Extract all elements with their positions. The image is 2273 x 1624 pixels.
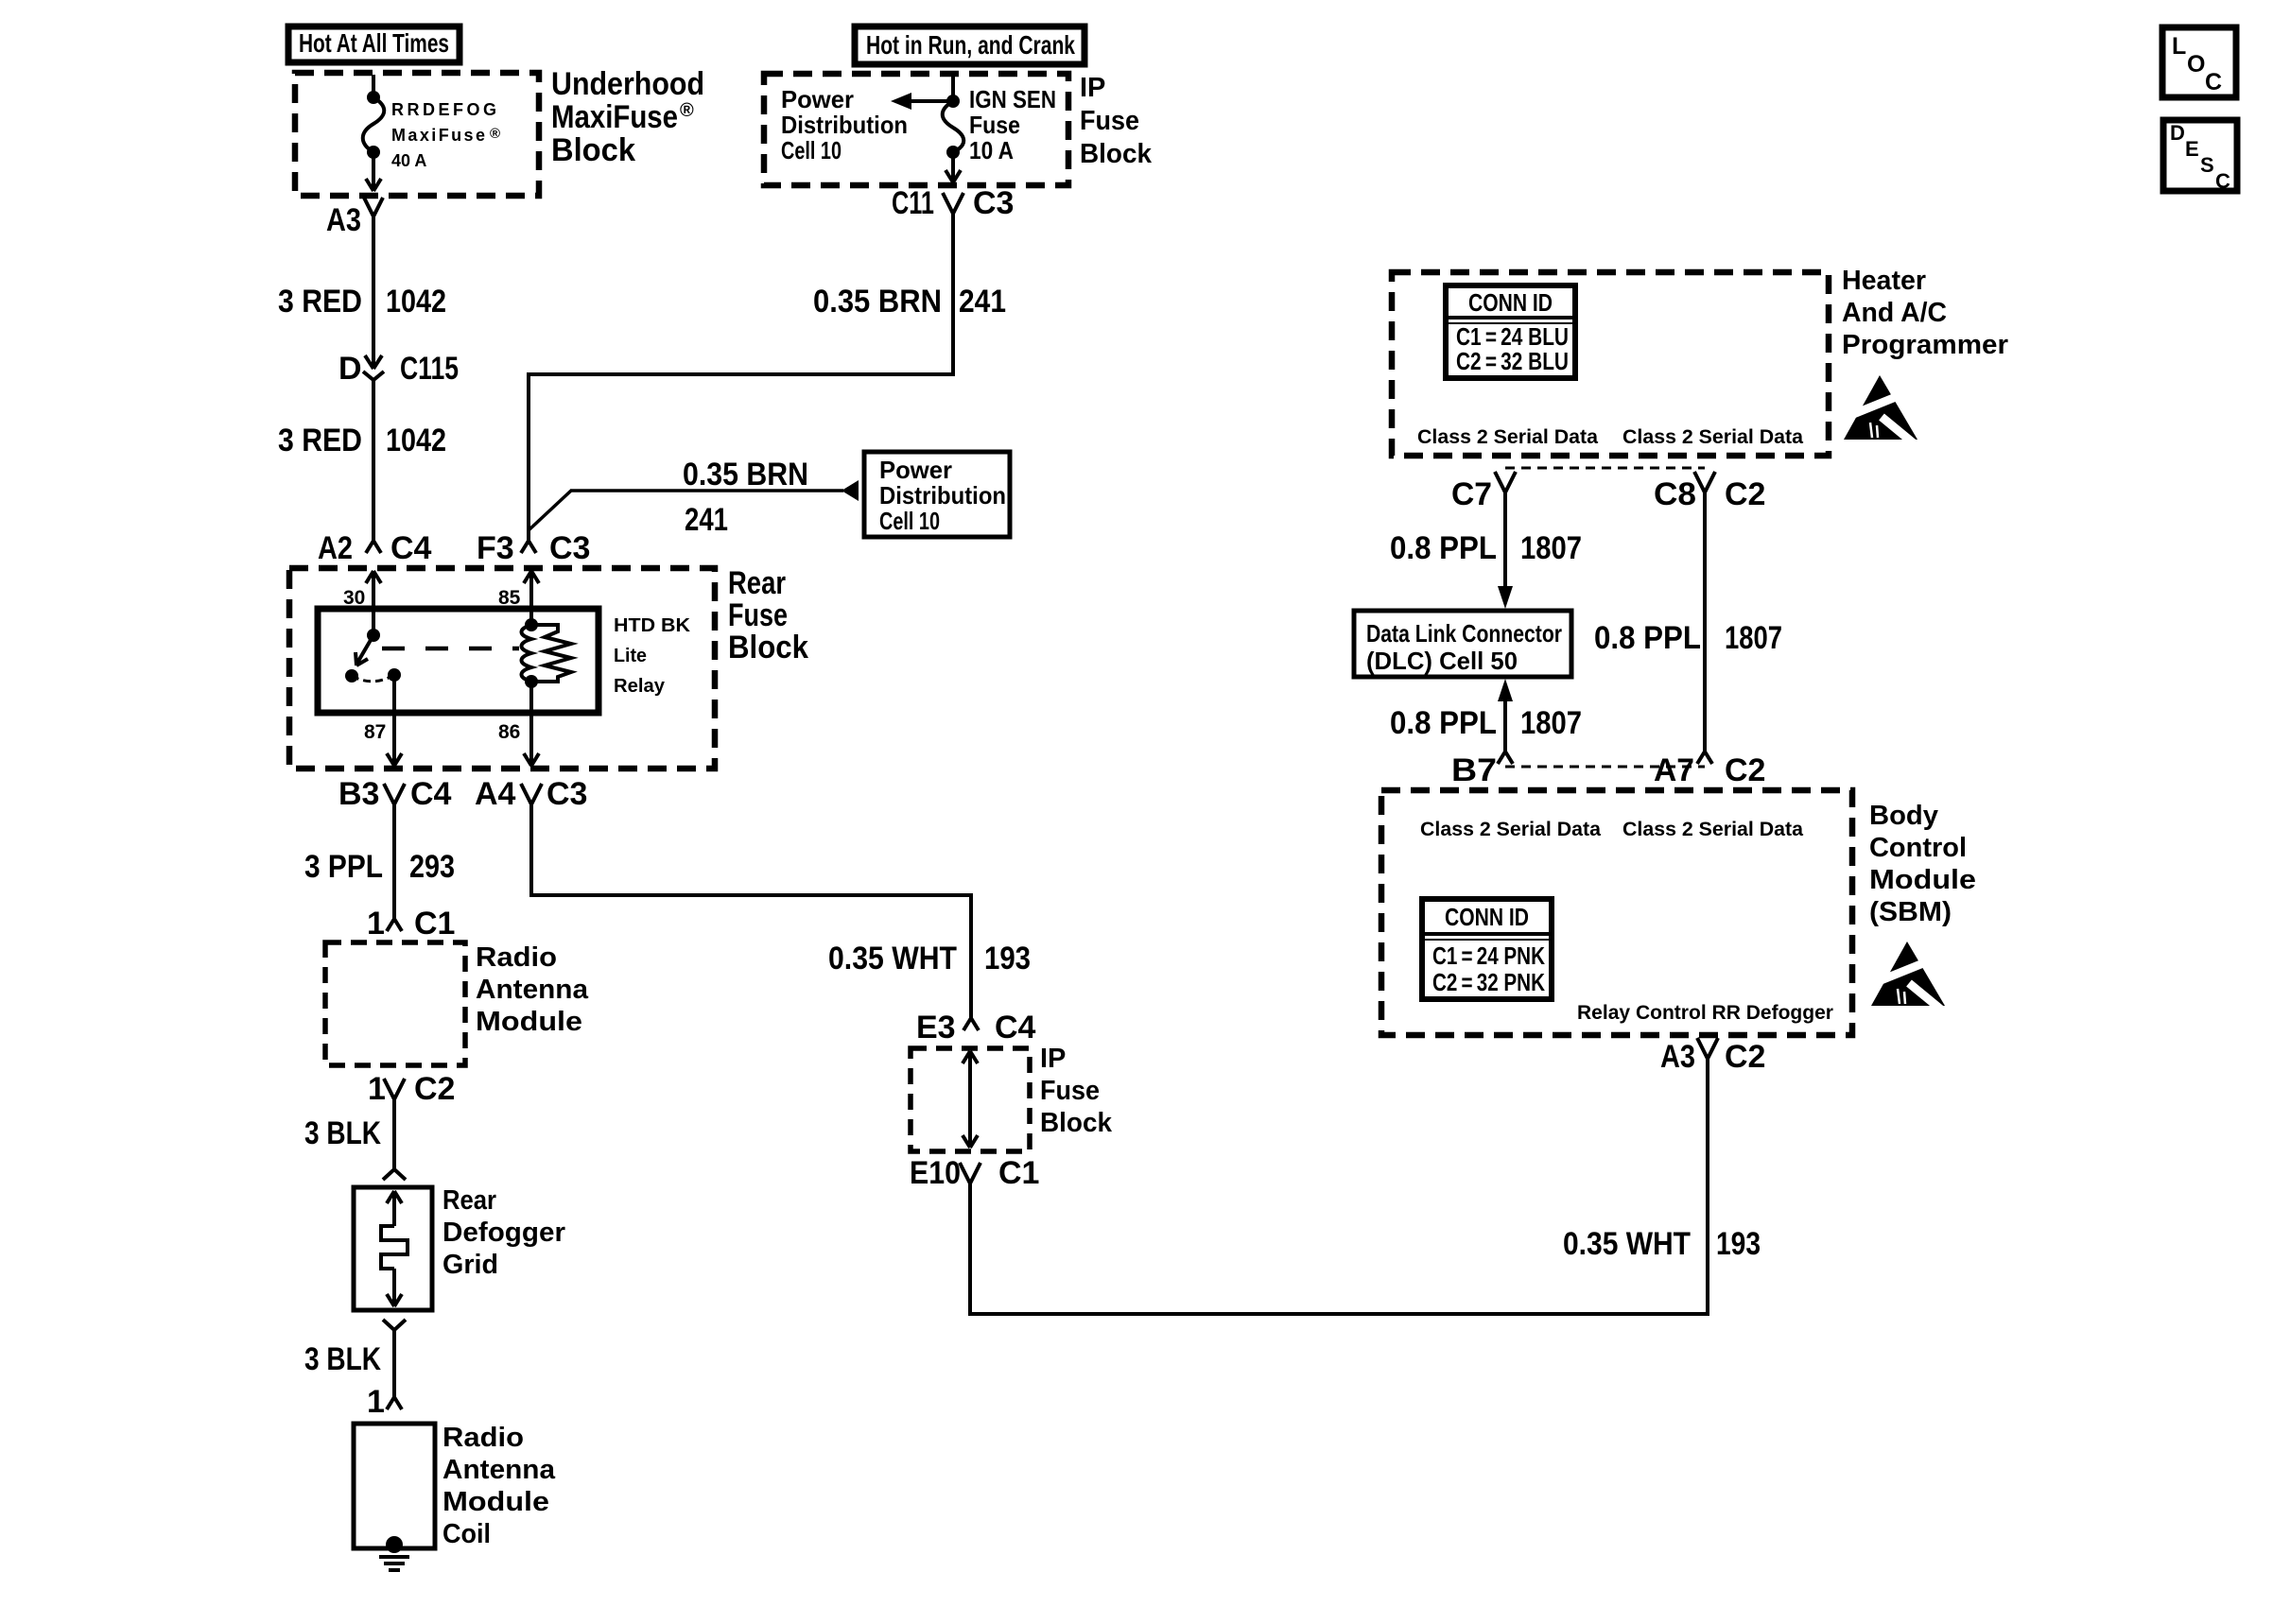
wire 3 BLK (grid to coil) bbox=[392, 1330, 396, 1397]
svg-text:C: C bbox=[2215, 169, 2230, 193]
svg-text:Power: Power bbox=[781, 85, 854, 113]
grid element wire with arrows bbox=[387, 1191, 402, 1306]
svg-text:B3: B3 bbox=[338, 776, 379, 812]
svg-text:Class 2 Serial Data: Class 2 Serial Data bbox=[1622, 426, 1803, 448]
svg-text:0.35 WHT: 0.35 WHT bbox=[1563, 1226, 1691, 1262]
svg-text:(SBM): (SBM) bbox=[1869, 897, 1952, 927]
connector A3 (Y symbol) bbox=[326, 198, 383, 238]
label Body Control Module (SBM) bbox=[1869, 801, 1976, 927]
wire label 0.8 PPL 1807 (C7) bbox=[1390, 530, 1582, 566]
svg-text:A2: A2 bbox=[318, 530, 353, 566]
svg-text:C2 = 32 BLU: C2 = 32 BLU bbox=[1456, 347, 1569, 375]
Power Distribution Cell 10 (solid box) bbox=[864, 452, 1010, 537]
svg-text:1: 1 bbox=[367, 906, 385, 942]
svg-text:87: 87 bbox=[364, 721, 386, 743]
connector pin 1 at coil bbox=[367, 1384, 402, 1420]
svg-text:C4: C4 bbox=[410, 776, 452, 812]
CONN ID table (BCM) bbox=[1422, 899, 1552, 999]
Underhood MaxiFuse Block (dashed box) bbox=[295, 73, 539, 196]
wire 3 RED 1042 (C115 to A2) bbox=[372, 380, 375, 541]
node: fuse bottom dot bbox=[367, 146, 380, 159]
wire 0.35 WHT 193 (A4/C3 down to E3) bbox=[531, 804, 971, 1018]
svg-text:Distribution: Distribution bbox=[781, 111, 908, 139]
wire label 0.35 BRN 241 bbox=[813, 284, 1006, 320]
wire 3 PPL 293 (B3 to radio antenna module) bbox=[392, 804, 396, 919]
wire 0.8 PPL 1807 (C8 to A7) bbox=[1703, 492, 1707, 752]
svg-text:E3: E3 bbox=[916, 1010, 956, 1045]
label IP Fuse Block (top) bbox=[1080, 73, 1153, 169]
svg-text:O: O bbox=[2187, 51, 2205, 78]
relay pin 86 wire with down arrow bbox=[498, 682, 539, 766]
connector C8 / C2 bbox=[1654, 472, 1765, 512]
fuse block internal wire with double arrows bbox=[963, 1051, 978, 1148]
svg-text:MaxiFuse: MaxiFuse bbox=[391, 126, 485, 145]
svg-text:0.35 WHT: 0.35 WHT bbox=[828, 941, 957, 976]
svg-text:MaxiFuse: MaxiFuse bbox=[551, 99, 678, 135]
svg-text:Distribution: Distribution bbox=[879, 481, 1006, 510]
svg-text:Antenna: Antenna bbox=[442, 1455, 556, 1485]
label Underhood MaxiFuse Block bbox=[551, 66, 704, 168]
wire label 3 RED 1042 (second) bbox=[278, 423, 446, 458]
wire fuse output with arrow to box edge bbox=[366, 152, 381, 191]
svg-text:3 RED: 3 RED bbox=[278, 423, 362, 458]
connector A2 / C4 at Rear Fuse Block bbox=[318, 530, 432, 566]
node: fuse top junction dot bbox=[367, 91, 380, 104]
connector A7 / C2 bbox=[1654, 752, 1765, 788]
svg-text:S: S bbox=[2200, 153, 2214, 177]
fuse RRDEFOG MaxiFuse 40A (S squiggle) bbox=[363, 97, 385, 152]
relay coil bbox=[522, 625, 532, 682]
svg-text:0.35 BRN: 0.35 BRN bbox=[813, 284, 942, 320]
svg-text:A3: A3 bbox=[326, 202, 361, 238]
svg-text:Fuse: Fuse bbox=[969, 111, 1020, 139]
svg-text:Radio: Radio bbox=[476, 942, 557, 973]
svg-text:0.8 PPL: 0.8 PPL bbox=[1390, 530, 1497, 566]
svg-text:C1: C1 bbox=[414, 906, 455, 942]
svg-text:Class 2 Serial Data: Class 2 Serial Data bbox=[1622, 819, 1803, 840]
svg-text:C4: C4 bbox=[390, 530, 432, 566]
node: coil ground dot bbox=[386, 1536, 403, 1553]
svg-text:Block: Block bbox=[1080, 139, 1153, 169]
svg-text:Body: Body bbox=[1869, 801, 1938, 831]
svg-text:Antenna: Antenna bbox=[476, 975, 589, 1005]
svg-text:IP: IP bbox=[1040, 1044, 1066, 1074]
BCM connector face (thin dashed line) bbox=[1505, 766, 1705, 769]
wire 3 BLK (C2 to defogger grid) bbox=[392, 1099, 396, 1168]
wire label 3 PPL 293 bbox=[304, 849, 455, 885]
svg-text:1807: 1807 bbox=[1520, 530, 1582, 566]
wire 0.8 PPL 1807 (C7 to DLC, down arrow) bbox=[1498, 492, 1513, 609]
ESD symbol (BCM) bbox=[1869, 942, 1947, 1014]
relay label HTD BK Lite Relay bbox=[614, 615, 691, 697]
relay switch travel (dashed arc) bbox=[352, 675, 394, 682]
svg-text:L: L bbox=[2172, 33, 2186, 60]
IP Fuse Block top (dashed box) bbox=[764, 74, 1068, 185]
relay pin 30 wire with up arrow bbox=[343, 571, 381, 635]
wire 0.35 WHT 193 (E10 down, right, up to BCM A3) bbox=[970, 1059, 1708, 1314]
svg-text:B7: B7 bbox=[1451, 752, 1497, 788]
connector E10 / C1 below IP fuse block bbox=[910, 1155, 1039, 1191]
Data Link Connector (DLC) Cell 50 (solid box) bbox=[1354, 611, 1571, 677]
svg-text:1: 1 bbox=[367, 1384, 385, 1420]
svg-text:C2: C2 bbox=[1725, 752, 1765, 788]
connector E3 / C4 at IP fuse block bbox=[916, 1010, 1036, 1045]
Body Control Module (dashed box) bbox=[1381, 790, 1852, 1035]
svg-text:Module: Module bbox=[442, 1487, 549, 1517]
svg-text:1807: 1807 bbox=[1520, 705, 1582, 741]
label Radio Antenna Module bbox=[476, 942, 589, 1037]
LOC icon box bbox=[2162, 27, 2236, 97]
svg-text:C7: C7 bbox=[1451, 476, 1492, 512]
svg-text:CONN ID: CONN ID bbox=[1445, 903, 1529, 931]
Heater And A/C Programmer (dashed box) bbox=[1392, 272, 1829, 456]
svg-text:1042: 1042 bbox=[386, 284, 446, 320]
svg-text:Fuse: Fuse bbox=[728, 597, 788, 633]
svg-text:Rear: Rear bbox=[728, 565, 786, 601]
fuse output wire with down arrow bbox=[946, 152, 961, 182]
svg-text:C8: C8 bbox=[1654, 476, 1696, 512]
svg-text:Cell 10: Cell 10 bbox=[879, 507, 940, 535]
svg-text:3 PPL: 3 PPL bbox=[304, 849, 383, 885]
relay switch arm with arrowhead bbox=[356, 635, 373, 665]
svg-text:C2: C2 bbox=[414, 1071, 455, 1107]
svg-text:D: D bbox=[2170, 121, 2185, 145]
svg-text:0.8 PPL: 0.8 PPL bbox=[1390, 705, 1497, 741]
svg-text:Block: Block bbox=[551, 132, 635, 168]
svg-text:C1 = 24 PNK: C1 = 24 PNK bbox=[1432, 942, 1545, 970]
svg-text:IGN SEN: IGN SEN bbox=[969, 85, 1056, 113]
svg-text:Fuse: Fuse bbox=[1040, 1076, 1100, 1106]
svg-text:Coil: Coil bbox=[442, 1519, 491, 1549]
svg-text:A7: A7 bbox=[1654, 752, 1694, 788]
svg-text:1807: 1807 bbox=[1725, 620, 1782, 656]
connector A4 / C3 below fuse block bbox=[475, 776, 587, 812]
relay actuation dashed line bbox=[382, 647, 519, 651]
svg-text:3 RED: 3 RED bbox=[278, 284, 362, 320]
label Data Link Connector (DLC) Cell 50 bbox=[1366, 619, 1562, 675]
svg-text:Hot At All Times: Hot At All Times bbox=[299, 28, 449, 58]
node: IGN SEN fuse bottom dot bbox=[946, 146, 960, 159]
svg-text:Fuse: Fuse bbox=[1080, 106, 1139, 136]
svg-text:Control: Control bbox=[1869, 833, 1967, 863]
svg-text:Rear: Rear bbox=[442, 1185, 496, 1216]
label IP Fuse Block (bottom) bbox=[1040, 1044, 1113, 1138]
relay HTD BK Lite Relay (solid box) bbox=[318, 609, 599, 713]
wire label 0.35 WHT 193 (right) bbox=[1563, 1226, 1761, 1262]
svg-text:CONN ID: CONN ID bbox=[1468, 288, 1553, 317]
node: pin 87 contact dot bbox=[388, 668, 401, 682]
svg-text:1: 1 bbox=[368, 1071, 386, 1107]
svg-text:E10: E10 bbox=[910, 1155, 961, 1191]
svg-text:Class 2 Serial Data: Class 2 Serial Data bbox=[1417, 426, 1598, 448]
connector chevron below grid bbox=[383, 1320, 406, 1330]
Rear Fuse Block (dashed box) bbox=[289, 568, 715, 769]
svg-text:193: 193 bbox=[984, 941, 1031, 976]
svg-text:C3: C3 bbox=[549, 530, 590, 566]
svg-text:C2 = 32 PNK: C2 = 32 PNK bbox=[1432, 968, 1545, 996]
connector 1 / C1 at radio antenna module bbox=[367, 906, 455, 942]
label Power Distribution Cell 10 (in IP fuse block) bbox=[781, 85, 908, 164]
svg-text:C3: C3 bbox=[547, 776, 587, 812]
svg-text:Lite: Lite bbox=[614, 646, 647, 666]
ESD symbol (heater programmer) bbox=[1842, 375, 1919, 448]
wire 0.35 BRN 241 (C3 down, left, to F3) bbox=[529, 214, 953, 541]
svg-text:Module: Module bbox=[476, 1007, 582, 1037]
svg-text:C11: C11 bbox=[892, 185, 934, 221]
label Power Distribution Cell 10 bbox=[879, 456, 1006, 535]
wire label 0.35 WHT 193 bbox=[828, 941, 1031, 976]
connector B3 / C4 below fuse block bbox=[338, 776, 452, 812]
label Rear Defogger Grid bbox=[442, 1185, 565, 1280]
connector C11 / C3 bbox=[892, 185, 1014, 221]
fuse IGN SEN 10A (S squiggle) bbox=[943, 101, 964, 152]
svg-text:Data Link Connector: Data Link Connector bbox=[1366, 619, 1562, 648]
wire label 0.35 BRN / 241 bbox=[683, 457, 808, 538]
svg-text:F3: F3 bbox=[477, 530, 514, 566]
label Rear Fuse Block bbox=[728, 565, 808, 665]
svg-text:Programmer: Programmer bbox=[1842, 330, 2008, 360]
Radio Antenna Module Coil (solid box) bbox=[354, 1424, 435, 1548]
DESC icon box bbox=[2163, 120, 2237, 193]
wire label 0.8 PPL 1807 (C8-A7) bbox=[1594, 620, 1782, 656]
svg-text:193: 193 bbox=[1716, 1226, 1761, 1262]
svg-text:40 A: 40 A bbox=[391, 151, 426, 170]
svg-text:Power: Power bbox=[879, 456, 952, 484]
wire label 0.8 PPL 1807 (B7) bbox=[1390, 705, 1582, 741]
node: IGN SEN junction dot bbox=[946, 95, 960, 108]
svg-text:Relay Control RR Defogger: Relay Control RR Defogger bbox=[1577, 1002, 1833, 1024]
relay pin 85 wire with up arrow bbox=[498, 571, 539, 625]
label Radio Antenna Module Coil bbox=[442, 1423, 556, 1549]
svg-text:Block: Block bbox=[1040, 1108, 1113, 1138]
svg-text:®: ® bbox=[680, 100, 694, 121]
wire label 3 RED 1042 bbox=[278, 284, 446, 320]
svg-text:C1: C1 bbox=[998, 1155, 1039, 1191]
power feed header: Hot At All Times bbox=[288, 26, 460, 62]
svg-text:Block: Block bbox=[728, 630, 808, 665]
svg-text:30: 30 bbox=[343, 587, 365, 609]
svg-text:And A/C: And A/C bbox=[1842, 298, 1947, 328]
svg-text:C3: C3 bbox=[973, 185, 1014, 221]
svg-text:A4: A4 bbox=[475, 776, 516, 812]
svg-text:3 BLK: 3 BLK bbox=[304, 1115, 381, 1151]
svg-text:241: 241 bbox=[959, 284, 1006, 320]
svg-text:3 BLK: 3 BLK bbox=[304, 1341, 381, 1377]
ground symbol bbox=[379, 1557, 409, 1570]
connector 1 / C2 below radio antenna module bbox=[368, 1071, 455, 1107]
Rear Defogger Grid (solid box) bbox=[354, 1187, 432, 1310]
IP Fuse Block bottom (dashed box) bbox=[911, 1048, 1030, 1151]
svg-text:(DLC) Cell 50: (DLC) Cell 50 bbox=[1366, 647, 1518, 675]
svg-text:C115: C115 bbox=[400, 351, 459, 387]
svg-text:Grid: Grid bbox=[442, 1250, 498, 1280]
svg-text:Class 2 Serial Data: Class 2 Serial Data bbox=[1420, 819, 1601, 840]
wire 0.8 PPL 1807 (B7 to DLC, up arrow) bbox=[1498, 679, 1513, 752]
svg-text:Cell 10: Cell 10 bbox=[781, 136, 842, 164]
svg-text:HTD BK: HTD BK bbox=[614, 615, 691, 636]
connector B7 bbox=[1451, 752, 1513, 788]
svg-text:241: 241 bbox=[685, 502, 728, 538]
svg-text:C2: C2 bbox=[1725, 1039, 1765, 1075]
svg-text:10 A: 10 A bbox=[969, 136, 1014, 164]
svg-text:C2: C2 bbox=[1725, 476, 1765, 512]
CONN ID table (heater programmer) bbox=[1446, 285, 1575, 378]
connector F3 / C3 at Rear Fuse Block bbox=[477, 530, 590, 566]
svg-text:Underhood: Underhood bbox=[551, 66, 704, 102]
heater connector face (thin dashed line) bbox=[1505, 467, 1705, 470]
wire 3 RED 1042 (A3 to C115) bbox=[372, 216, 375, 367]
wire branch diagonal from F3 bbox=[529, 491, 571, 530]
svg-text:Heater: Heater bbox=[1842, 266, 1926, 296]
svg-text:85: 85 bbox=[498, 587, 521, 609]
svg-text:E: E bbox=[2185, 137, 2199, 161]
svg-text:Radio: Radio bbox=[442, 1423, 524, 1453]
svg-text:1042: 1042 bbox=[386, 423, 446, 458]
in-line connector C115 pin D (arrow + chevron) bbox=[338, 351, 459, 387]
svg-text:IP: IP bbox=[1080, 73, 1105, 103]
svg-text:293: 293 bbox=[409, 849, 455, 885]
wire from box top to fuse RRDEFOG bbox=[372, 75, 375, 97]
node: coil top dot bbox=[525, 618, 538, 631]
node: coil bottom dot bbox=[525, 675, 538, 688]
svg-text:C4: C4 bbox=[995, 1010, 1036, 1045]
Radio Antenna Module (dashed box) bbox=[325, 942, 465, 1065]
label Heater And A/C Programmer bbox=[1842, 266, 2008, 360]
power feed header: Hot in Run, and Crank bbox=[855, 26, 1084, 64]
connector A3 / C2 below BCM bbox=[1660, 1038, 1765, 1075]
svg-text:86: 86 bbox=[498, 721, 520, 743]
svg-text:Relay: Relay bbox=[614, 676, 666, 697]
svg-text:D: D bbox=[338, 351, 362, 387]
in-line connector chevron above grid bbox=[383, 1169, 406, 1180]
svg-text:C: C bbox=[2205, 69, 2222, 95]
svg-text:A3: A3 bbox=[1660, 1039, 1695, 1075]
svg-text:Module: Module bbox=[1869, 865, 1976, 895]
svg-text:Defogger: Defogger bbox=[442, 1218, 565, 1248]
node: switch throw dot bbox=[345, 669, 358, 682]
relay pin 87 wire with down arrow bbox=[364, 675, 402, 766]
relay coil suppression resistor (parallel zigzag) bbox=[531, 625, 571, 682]
node: relay common contact dot (pin 30) bbox=[367, 629, 380, 642]
svg-text:®: ® bbox=[490, 126, 500, 142]
fuse value label IGN SEN Fuse 10 A bbox=[969, 85, 1056, 164]
fuse value label RRDEFOG MaxiFuse 40 A bbox=[391, 100, 500, 170]
grid element symbol bbox=[381, 1226, 408, 1269]
connector C7 bbox=[1451, 472, 1516, 512]
wire 0.35 BRN 241 to Power Distribution (right arrow) bbox=[570, 480, 859, 501]
wire to Power Distribution (left arrow) bbox=[891, 93, 953, 110]
svg-text:0.35 BRN: 0.35 BRN bbox=[683, 457, 808, 492]
svg-text:Hot in Run, and Crank: Hot in Run, and Crank bbox=[866, 30, 1075, 60]
wire from box top into IGN SEN fuse bbox=[951, 76, 955, 101]
svg-text:0.8 PPL: 0.8 PPL bbox=[1594, 620, 1701, 656]
